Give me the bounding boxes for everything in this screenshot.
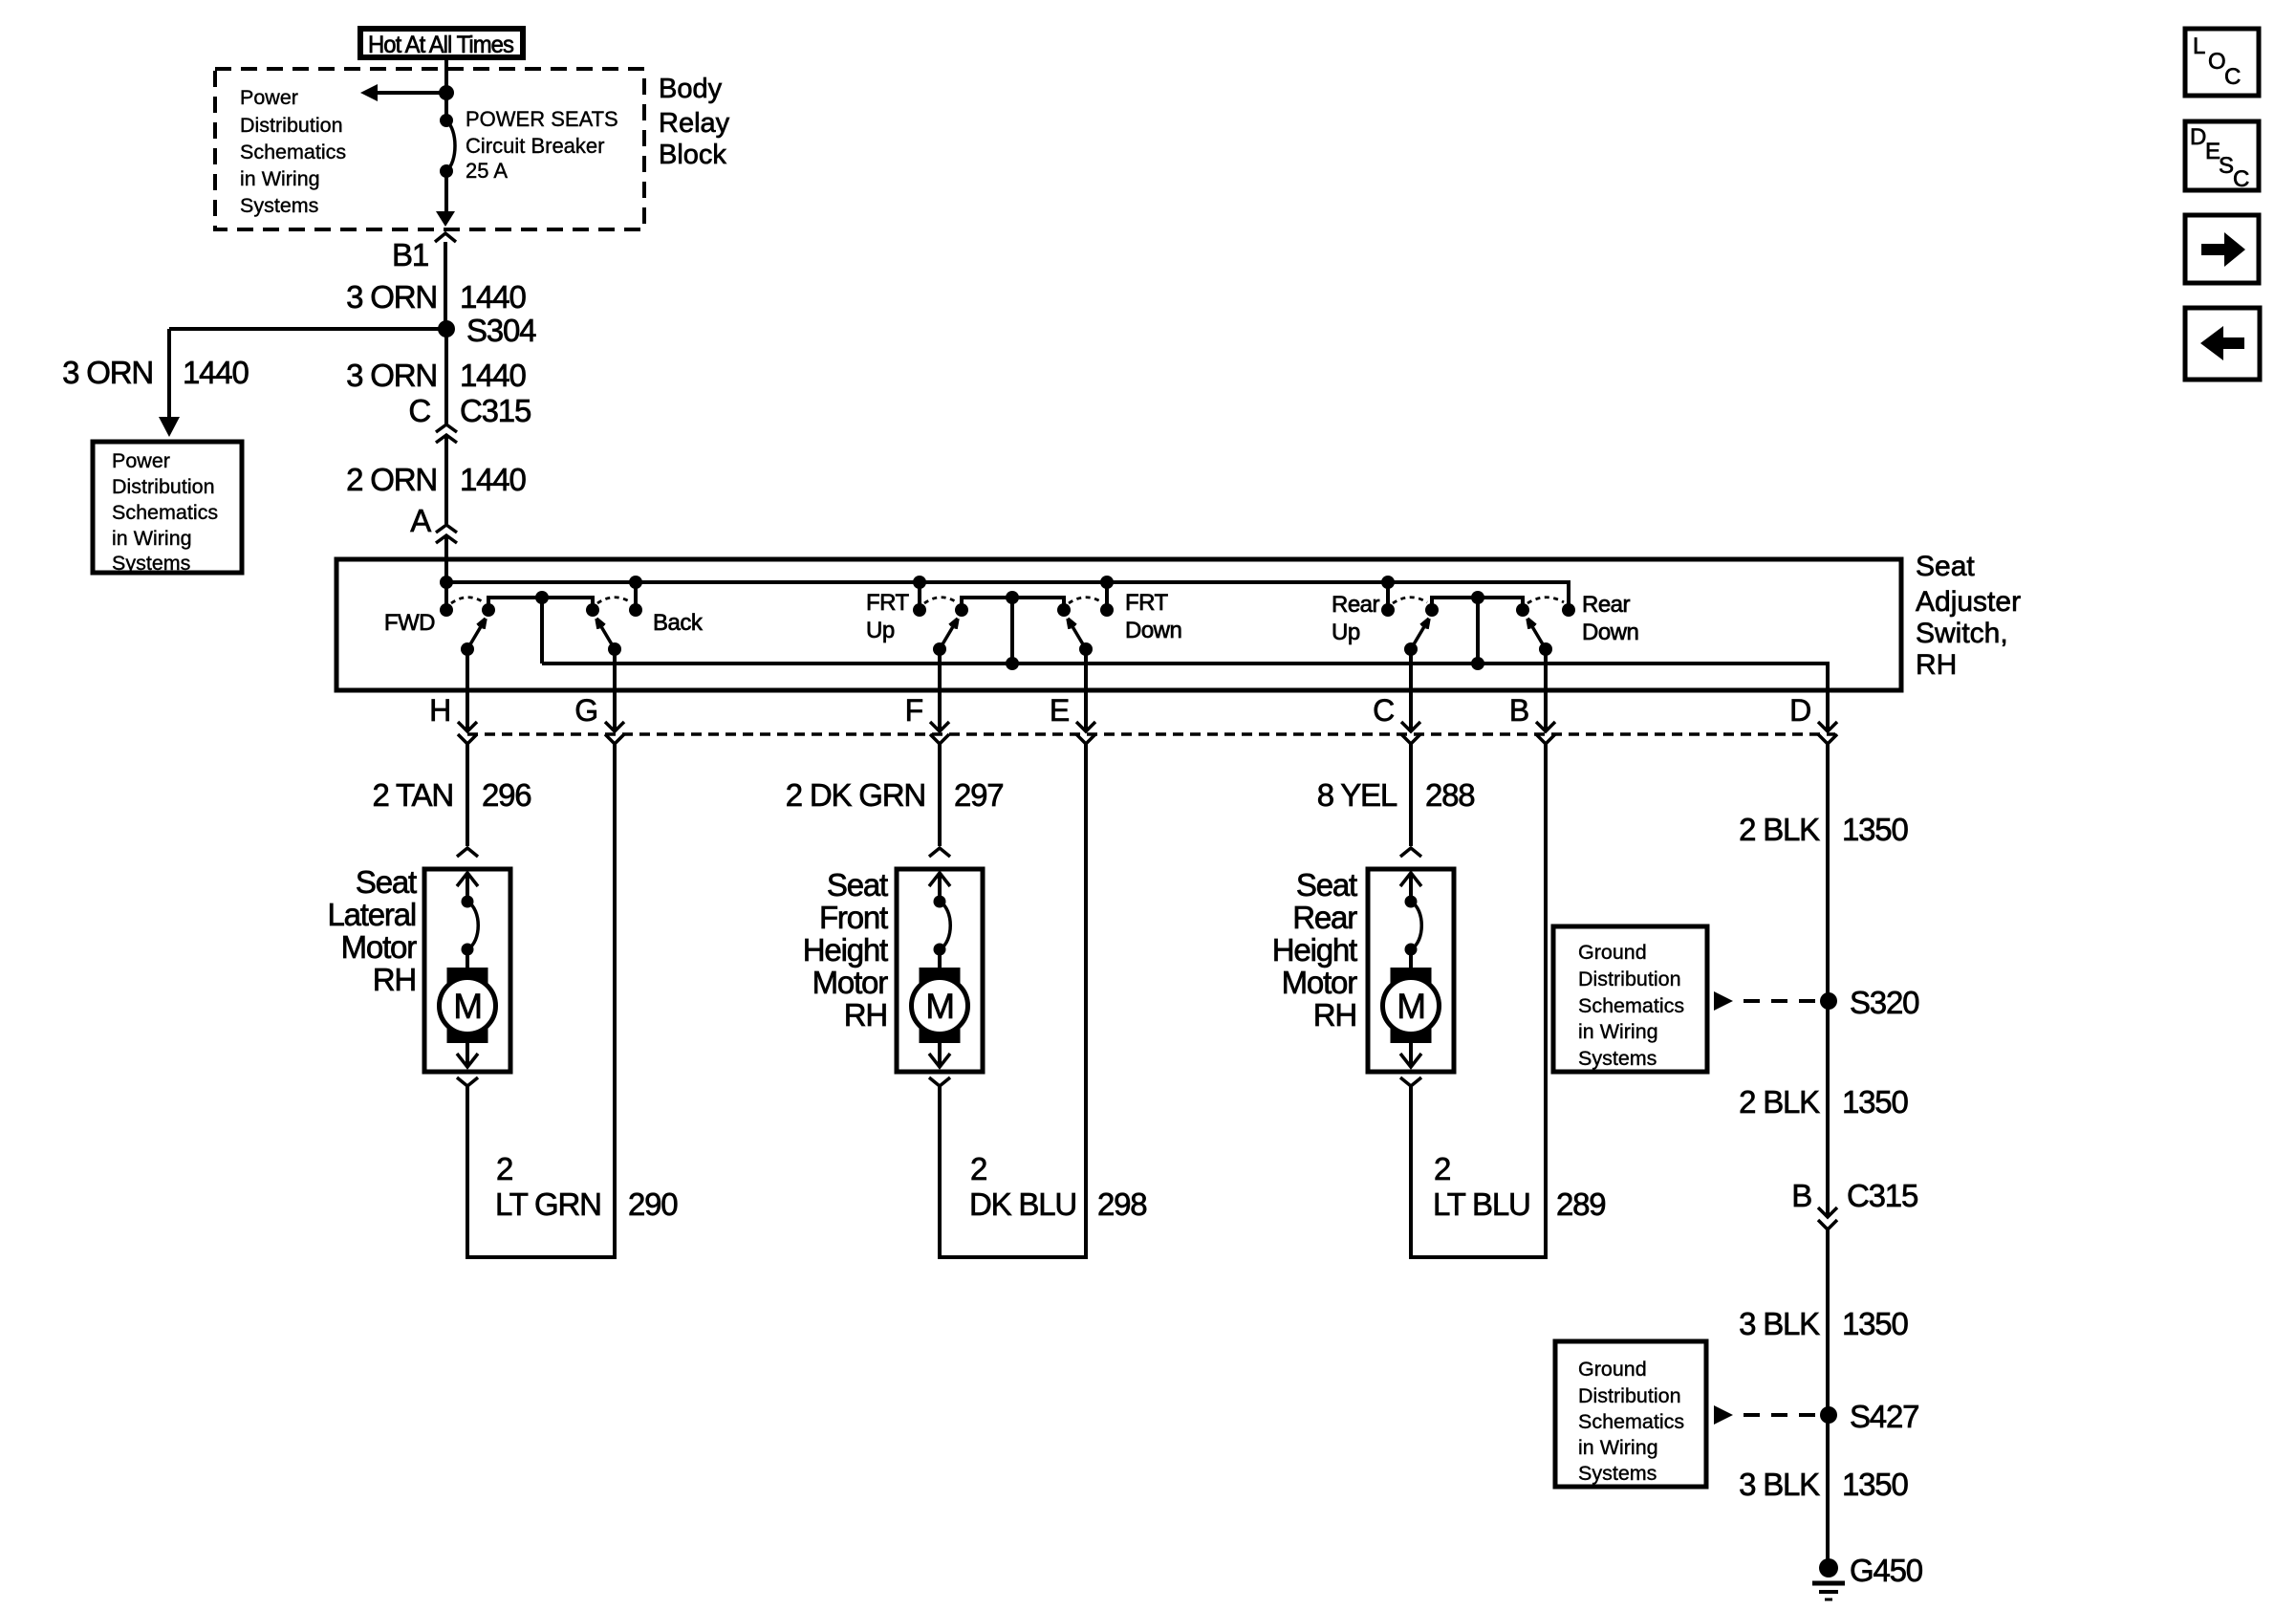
terminal A of seat adjuster switch: [410, 503, 457, 543]
svg-text:L: L: [2193, 33, 2205, 59]
label Seat Adjuster Switch, RH: [1916, 551, 2021, 681]
terminal C connector: [1373, 649, 1420, 744]
connector C315 terminal B (ground): [1791, 1178, 1917, 1229]
svg-text:RH: RH: [1916, 649, 1957, 681]
switch link: pair2 common bar: [955, 591, 1071, 617]
svg-text:DK BLU: DK BLU: [969, 1186, 1076, 1222]
svg-text:C: C: [408, 393, 430, 428]
svg-text:D: D: [2190, 124, 2206, 150]
dashed coupling arcs pair 3: [1393, 598, 1564, 603]
wire: pair1 drop to ground bus: [540, 598, 544, 664]
label 2 BLK 1350 (lower): [1739, 1084, 1908, 1120]
wire into switch: [444, 535, 448, 582]
svg-text:G450: G450: [1850, 1553, 1923, 1588]
svg-text:POWER SEATS: POWER SEATS: [466, 107, 618, 131]
svg-text:S427: S427: [1850, 1399, 1918, 1434]
svg-text:Height: Height: [803, 932, 888, 968]
svg-text:1350: 1350: [1842, 1306, 1908, 1341]
wire 2 BLK 1350 (D to S320): [1826, 744, 1830, 1001]
svg-text:Ground: Ground: [1578, 941, 1647, 964]
switch link: pair1 common bar: [482, 591, 599, 617]
svg-text:Systems: Systems: [1578, 1047, 1657, 1070]
svg-text:25 A: 25 A: [466, 159, 508, 183]
svg-text:Hot At All Times: Hot At All Times: [368, 32, 513, 58]
svg-text:Down: Down: [1582, 620, 1638, 645]
label FRT Up: [866, 590, 910, 643]
label POWER SEATS Circuit Breaker 25 A: [466, 107, 618, 183]
node S320: [1820, 985, 1919, 1020]
switch blade: seat lateral pole 2 (terminal G): [596, 619, 621, 656]
switch link: pair3 common bar: [1425, 591, 1529, 617]
label Rear Down: [1582, 592, 1638, 645]
svg-text:S: S: [2219, 153, 2234, 179]
svg-text:LT BLU: LT BLU: [1433, 1186, 1530, 1222]
wire: ground bus to terminal D: [542, 664, 1828, 690]
svg-text:Distribution: Distribution: [240, 114, 343, 137]
svg-text:S304: S304: [466, 313, 536, 348]
wire: branch from S304 to left: [169, 329, 446, 419]
svg-text:B: B: [1791, 1178, 1811, 1213]
switch pole: FRT Up contact: [913, 576, 926, 617]
svg-text:S320: S320: [1850, 985, 1919, 1020]
svg-text:2: 2: [496, 1151, 512, 1186]
svg-text:FWD: FWD: [384, 610, 435, 636]
label FRT Down: [1125, 590, 1181, 643]
icon box LOC: [2185, 29, 2259, 96]
svg-text:Distribution: Distribution: [1578, 968, 1681, 990]
svg-text:Up: Up: [866, 618, 895, 643]
svg-text:M: M: [1397, 987, 1425, 1026]
svg-text:A: A: [410, 503, 431, 538]
svg-text:1440: 1440: [460, 279, 526, 315]
svg-text:Schematics: Schematics: [1578, 994, 1684, 1017]
svg-text:3 ORN: 3 ORN: [62, 355, 153, 390]
svg-text:Height: Height: [1272, 932, 1357, 968]
svg-text:289: 289: [1556, 1186, 1605, 1222]
connector at seat lateral motor: [457, 848, 478, 857]
terminal B1 connector: [392, 233, 456, 272]
svg-text:Motor: Motor: [341, 929, 418, 965]
svg-text:1440: 1440: [460, 462, 526, 497]
wire: pair2 drop to ground bus: [1006, 598, 1019, 670]
svg-text:in Wiring: in Wiring: [1578, 1436, 1658, 1459]
svg-text:C: C: [2224, 64, 2241, 90]
arrow: feed exits relay block: [436, 211, 455, 227]
power feed label box: Hot At All Times: [360, 29, 523, 58]
label 2 DK GRN 297: [786, 777, 1004, 813]
svg-text:C315: C315: [1847, 1178, 1917, 1213]
svg-text:D: D: [1789, 693, 1810, 728]
ground G450: [1812, 1553, 1923, 1599]
connector at rear height motor: [1400, 848, 1421, 857]
svg-text:Front: Front: [819, 900, 888, 935]
switch pole: Rear Up contact: [1381, 576, 1395, 617]
label Seat Front Height Motor RH: [803, 867, 888, 1033]
svg-text:290: 290: [628, 1186, 678, 1222]
wire 3 ORN 1440 (B1 to S304): [444, 242, 447, 326]
svg-text:O: O: [2208, 49, 2225, 75]
svg-text:3 ORN: 3 ORN: [346, 279, 437, 315]
svg-text:Systems: Systems: [1578, 1462, 1657, 1485]
label 3 BLK 1350 (upper): [1739, 1306, 1908, 1341]
wire: B+ bus in switch: [446, 582, 1569, 610]
svg-text:3 BLK: 3 BLK: [1739, 1306, 1820, 1341]
svg-text:Motor: Motor: [1282, 965, 1358, 1000]
box: Ground Distribution Schematics (S427): [1555, 1341, 1706, 1487]
svg-text:2 ORN: 2 ORN: [346, 462, 437, 497]
wire 2 DK GRN 297 (F to motor): [938, 744, 942, 846]
arrow to Power Distribution Schematics: [360, 84, 378, 101]
dashed pointer to S427: [1714, 1405, 1816, 1425]
svg-text:Block: Block: [659, 140, 726, 170]
wire 2 TAN 296 (H to motor): [466, 744, 469, 846]
svg-text:3 ORN: 3 ORN: [346, 358, 437, 393]
terminal D connector: [1789, 664, 1837, 744]
motor M2: Seat Front Height Motor RH: [897, 869, 983, 1072]
svg-text:Seat: Seat: [827, 867, 888, 903]
svg-text:Ground: Ground: [1578, 1358, 1647, 1381]
svg-text:Motor: Motor: [812, 965, 889, 1000]
label 2 LT BLU 289: [1433, 1151, 1605, 1222]
terminal B connector: [1509, 649, 1555, 744]
svg-text:Systems: Systems: [112, 552, 190, 575]
label 2 DK BLU 298: [969, 1151, 1146, 1222]
svg-text:2 BLK: 2 BLK: [1739, 812, 1820, 847]
svg-text:RH: RH: [844, 997, 887, 1033]
svg-text:1350: 1350: [1842, 1467, 1908, 1502]
svg-text:2 BLK: 2 BLK: [1739, 1084, 1820, 1120]
wire: pair3 drop to ground bus: [1471, 598, 1484, 670]
svg-text:Lateral: Lateral: [327, 897, 416, 932]
connector below rear height motor: [1400, 1077, 1421, 1086]
svg-text:Seat: Seat: [1296, 867, 1357, 903]
dashed coupling arcs pair 1: [451, 598, 631, 603]
svg-text:C315: C315: [460, 393, 531, 428]
svg-text:M: M: [925, 987, 954, 1026]
wire 3 BLK 1350 (C315 to S427): [1826, 1229, 1830, 1415]
svg-text:Power: Power: [240, 86, 298, 109]
node S427: [1820, 1399, 1918, 1434]
svg-text:Seat: Seat: [1916, 551, 1975, 582]
label 3 ORN 1440 (upper): [346, 279, 526, 315]
dashed coupling arcs pair 2: [924, 598, 1102, 603]
node: bus feed junction: [440, 576, 453, 589]
node: feed junction in relay block: [439, 85, 454, 100]
svg-text:2: 2: [1434, 1151, 1450, 1186]
svg-text:Relay: Relay: [659, 108, 730, 139]
switch contact: Back to bus: [629, 576, 642, 617]
wire 8 YEL 288 (C to motor): [1409, 744, 1413, 846]
label 8 YEL 288: [1317, 777, 1475, 813]
wire 3 ORN 1440 (S304 to C315): [444, 329, 448, 424]
label 3 ORN 1440 (lower): [346, 358, 526, 393]
connector at front height motor: [929, 848, 950, 857]
svg-text:Rear: Rear: [1332, 592, 1380, 618]
terminal E connector: [1050, 649, 1095, 744]
svg-text:Power: Power: [112, 449, 170, 472]
box: Seat Adjuster Switch RH: [336, 559, 1901, 690]
connector below seat lateral motor: [457, 1077, 478, 1086]
svg-text:M: M: [453, 987, 482, 1026]
svg-text:in Wiring: in Wiring: [1578, 1020, 1658, 1043]
box: Power Distribution Schematics in Wiring Systems: [93, 442, 242, 575]
svg-text:Adjuster: Adjuster: [1916, 586, 2021, 618]
label Seat Lateral Motor RH: [327, 864, 417, 997]
svg-text:B: B: [1509, 693, 1528, 728]
svg-text:B1: B1: [392, 237, 428, 272]
connector below front height motor: [929, 1077, 950, 1086]
svg-text:in Wiring: in Wiring: [112, 527, 192, 550]
svg-text:LT GRN: LT GRN: [495, 1186, 601, 1222]
svg-text:2 TAN: 2 TAN: [373, 777, 453, 813]
svg-text:288: 288: [1425, 777, 1474, 813]
svg-text:Distribution: Distribution: [1578, 1384, 1681, 1407]
connector C315 terminal C: [408, 393, 531, 443]
svg-text:297: 297: [954, 777, 1003, 813]
switch pole: FWD contact: [440, 603, 453, 617]
label Seat Rear Height Motor RH: [1272, 867, 1357, 1033]
svg-text:G: G: [574, 693, 597, 728]
svg-text:Rear: Rear: [1292, 900, 1357, 935]
svg-text:1440: 1440: [183, 355, 249, 390]
wire from Hot At All Times into relay block: [444, 60, 448, 95]
icon box left arrow: [2185, 308, 2260, 380]
svg-text:296: 296: [482, 777, 531, 813]
svg-text:Down: Down: [1125, 618, 1181, 643]
svg-text:Body: Body: [659, 74, 723, 104]
label 2 LT GRN 290: [495, 1151, 678, 1222]
dashed pointer to S320: [1714, 991, 1816, 1011]
switch blade: rear height pole 1 (terminal C): [1404, 619, 1429, 656]
motor M3: Seat Rear Height Motor RH: [1368, 869, 1454, 1072]
terminal G connector: [574, 649, 624, 744]
label Rear Up: [1332, 592, 1380, 645]
svg-text:H: H: [429, 693, 450, 728]
icon box right arrow: [2185, 215, 2259, 283]
svg-text:E: E: [1050, 693, 1069, 728]
label 3 BLK 1350 (lower): [1739, 1467, 1908, 1502]
svg-text:Circuit Breaker: Circuit Breaker: [466, 134, 604, 158]
switch blade: front height pole 1 (terminal F): [933, 619, 958, 656]
wire: branch to power distribution arrow: [373, 91, 446, 95]
motor M1: Seat Lateral Motor RH: [424, 869, 510, 1072]
node S304: [438, 313, 536, 348]
svg-text:FRT: FRT: [866, 590, 910, 616]
svg-text:1440: 1440: [460, 358, 526, 393]
label Power Distribution Schematics in Wiring Systems (relay block): [240, 86, 346, 217]
label 3 ORN 1440 (left branch): [62, 355, 249, 390]
arrow into Power Distribution box: [159, 417, 180, 437]
svg-text:Schematics: Schematics: [240, 141, 346, 163]
icon box DESC: [2185, 121, 2259, 192]
svg-text:in Wiring: in Wiring: [240, 167, 320, 190]
svg-text:Schematics: Schematics: [112, 501, 218, 524]
svg-text:2 DK GRN: 2 DK GRN: [786, 777, 925, 813]
svg-text:F: F: [905, 693, 923, 728]
circuit breaker: POWER SEATS 25 A: [440, 93, 455, 214]
svg-text:RH: RH: [373, 962, 416, 997]
wire 2 BLK 1350 (S320 to C315): [1826, 1001, 1830, 1217]
svg-text:C: C: [2233, 166, 2249, 192]
wire 2 LT BLU 289 (motor to B): [1411, 744, 1546, 1257]
wire 3 BLK 1350 (S427 to G450): [1826, 1415, 1830, 1566]
dashed box: Body Relay Block: [215, 69, 644, 229]
label FWD: [384, 610, 435, 636]
svg-text:Back: Back: [653, 610, 704, 636]
svg-text:2: 2: [970, 1151, 986, 1186]
svg-text:8 YEL: 8 YEL: [1317, 777, 1397, 813]
svg-text:Switch,: Switch,: [1916, 618, 2008, 649]
label 2 BLK 1350 (upper): [1739, 812, 1908, 847]
svg-text:Up: Up: [1332, 620, 1360, 645]
switch contact: FRT Down to bus: [1100, 576, 1114, 617]
dashed connector line C315: [467, 732, 1835, 736]
wire 2 ORN 1440 (C315 to switch): [444, 435, 448, 524]
svg-text:1350: 1350: [1842, 1084, 1908, 1120]
terminal H connector: [429, 649, 477, 744]
switch blade: seat lateral pole 1 (terminal H): [461, 619, 486, 656]
svg-text:Seat: Seat: [356, 864, 417, 900]
svg-text:Schematics: Schematics: [1578, 1410, 1684, 1433]
terminal F connector: [905, 649, 949, 744]
label 2 TAN 296: [373, 777, 531, 813]
box: Ground Distribution Schematics (S320): [1553, 926, 1707, 1072]
label 2 ORN 1440: [346, 462, 526, 497]
wire 2 LT GRN 290 (motor to G): [467, 744, 615, 1257]
switch blade: front height pole 2 (terminal E): [1068, 619, 1093, 656]
svg-text:Rear: Rear: [1582, 592, 1631, 618]
svg-text:Distribution: Distribution: [112, 475, 215, 498]
label Body Relay Block: [659, 74, 730, 170]
svg-text:1350: 1350: [1842, 812, 1908, 847]
wire 2 DK BLU 298 (motor to E): [940, 744, 1086, 1257]
switch blade: rear height pole 2 (terminal B): [1527, 619, 1552, 656]
svg-text:RH: RH: [1313, 997, 1356, 1033]
svg-text:298: 298: [1097, 1186, 1146, 1222]
svg-text:C: C: [1373, 693, 1394, 728]
label Back: [653, 610, 704, 636]
svg-text:Systems: Systems: [240, 194, 318, 217]
wire: feed drop to FWD contact: [444, 582, 448, 610]
svg-text:3 BLK: 3 BLK: [1739, 1467, 1820, 1502]
svg-text:FRT: FRT: [1125, 590, 1169, 616]
switch contact: Rear Down: [1562, 603, 1575, 617]
